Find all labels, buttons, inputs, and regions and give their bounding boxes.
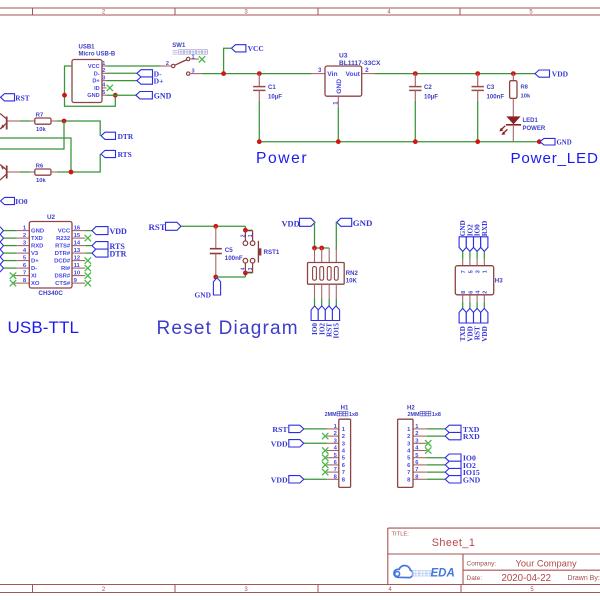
net flag IO15 below RN2	[332, 306, 340, 339]
wire USB VCC to SW1 pin2	[107, 65, 161, 67]
wire H2 pin1 to TXD	[427, 428, 445, 430]
wire R7 to DTR	[51, 120, 57, 122]
svg-text:GND: GND	[353, 218, 373, 228]
svg-text:10: 10	[74, 271, 81, 277]
wire R8 to LED1	[512, 98, 514, 116]
no-connect X U2 pin7	[10, 272, 16, 278]
svg-text:IO0: IO0	[15, 197, 28, 206]
net flag RXD at H2	[445, 432, 480, 441]
wire C3 to ground rail	[477, 101, 479, 142]
net flag TXD below H3	[459, 308, 467, 341]
svg-text:10µF: 10µF	[424, 94, 438, 101]
svg-text:VDD: VDD	[282, 220, 300, 229]
junction R6 node	[69, 170, 74, 175]
wire RST to H1 pin1	[304, 428, 327, 430]
wire SW1 pin3 to U3 Vin	[202, 73, 312, 75]
svg-text:7: 7	[334, 467, 337, 473]
junction ground rail at GND flag	[537, 139, 542, 144]
wire H2 pin2 to RXD	[427, 435, 445, 437]
wire RST to button	[181, 225, 245, 227]
no-connect X H2 pin3	[425, 440, 431, 446]
no-connect X U2 pin12	[85, 257, 91, 263]
power flag VDD right	[535, 70, 569, 79]
net flag GND at H2	[445, 475, 480, 484]
junction ground rail at C3	[475, 139, 480, 144]
svg-text:2: 2	[415, 431, 418, 437]
svg-text:1x8: 1x8	[432, 412, 441, 418]
svg-text:DTR: DTR	[118, 132, 134, 141]
net flag GND above H3	[459, 220, 467, 251]
svg-text:DTR: DTR	[110, 249, 127, 258]
no-connect X H1 pin4	[322, 447, 328, 453]
svg-text:Power_LED: Power_LED	[511, 150, 599, 167]
svg-text:1x8: 1x8	[349, 412, 358, 418]
svg-text:2020-04-22: 2020-04-22	[502, 573, 552, 584]
svg-text:13: 13	[74, 248, 81, 254]
push button RST1	[240, 231, 280, 273]
resistor R7	[35, 112, 51, 133]
power flag VDD at H1 pin8	[271, 475, 304, 484]
svg-text:LED1: LED1	[523, 118, 539, 124]
svg-text:RXD: RXD	[481, 221, 489, 237]
svg-text:7: 7	[342, 470, 345, 476]
transistor Q upper	[0, 114, 7, 130]
wire VCC flag to rail	[224, 48, 232, 73]
no-connect X H1 pin7	[322, 469, 328, 475]
no-connect X H2 pin4	[425, 447, 431, 453]
svg-text:VDD: VDD	[481, 326, 489, 342]
sheet border top	[0, 8, 600, 15]
ground flag GND reset	[195, 278, 221, 300]
wire GND to RN2 pin5	[335, 222, 337, 250]
wire U3 Vout to VDD	[375, 73, 535, 75]
voltage regulator U3	[312, 53, 381, 107]
header H2	[398, 405, 441, 487]
svg-text:8: 8	[461, 291, 467, 294]
net flag RXD above H3	[481, 221, 489, 252]
wire Q upper base to R7	[8, 120, 21, 122]
svg-text:10K: 10K	[346, 279, 358, 285]
svg-text:C1: C1	[268, 84, 276, 91]
resistor R6	[35, 163, 51, 184]
svg-text:11: 11	[74, 263, 81, 269]
wire USB GND to flag	[107, 94, 136, 96]
net flag D+	[137, 77, 164, 86]
svg-text:GND: GND	[195, 290, 211, 299]
border index numbers bottom	[102, 587, 535, 593]
wire U2 VCC to VDD flag	[85, 230, 92, 232]
junction button bottom	[243, 271, 248, 276]
net flag IO0 at H2	[445, 454, 476, 463]
wire U3 GND down	[337, 107, 339, 142]
svg-text:ID: ID	[94, 86, 100, 92]
svg-text:DSR#: DSR#	[54, 274, 70, 280]
resistor network RN2	[308, 248, 359, 299]
wire C1 to ground rail	[258, 101, 260, 142]
svg-text:1: 1	[102, 61, 105, 67]
no-connect X H1 pin5	[322, 455, 328, 461]
svg-text:3: 3	[248, 267, 254, 270]
capacitor C1	[253, 74, 282, 101]
svg-text:RTS: RTS	[118, 150, 132, 159]
no-connect X H1 pin2	[322, 433, 328, 439]
junction C2 top	[413, 71, 418, 76]
svg-text:USB-TTL: USB-TTL	[8, 318, 80, 337]
junction C1 top	[257, 71, 262, 76]
svg-text:2: 2	[483, 291, 489, 294]
power flag VDD at U2	[92, 227, 127, 236]
svg-text:7: 7	[415, 467, 418, 473]
wire R7 node down left	[0, 121, 64, 149]
svg-text:D+: D+	[92, 79, 100, 85]
resistor R8	[510, 74, 531, 100]
net flag IO0 above H3	[474, 224, 482, 251]
svg-text:RXD: RXD	[463, 432, 480, 441]
net flag IO2 above H3	[466, 224, 474, 251]
svg-text:VCC: VCC	[58, 229, 71, 235]
svg-text:VDD: VDD	[271, 439, 288, 448]
svg-text:XO: XO	[31, 281, 40, 287]
svg-text:GND: GND	[336, 79, 343, 94]
svg-text:Power: Power	[256, 150, 308, 167]
header H3	[455, 259, 503, 301]
wire U2 DTR# to flag	[85, 252, 92, 254]
net flag RST below RN2	[325, 306, 333, 337]
svg-text:USB1: USB1	[79, 44, 96, 50]
svg-text:1: 1	[483, 270, 489, 273]
svg-text:DTR#: DTR#	[55, 251, 71, 257]
svg-text:CH340C: CH340C	[38, 290, 63, 297]
capacitor C3	[472, 74, 505, 101]
svg-text:H2: H2	[407, 405, 415, 411]
svg-text:RN2: RN2	[346, 271, 359, 277]
net flag IO0 below RN2	[311, 306, 319, 335]
power flag VCC	[231, 44, 263, 53]
svg-text:14: 14	[74, 241, 81, 247]
svg-text:C3: C3	[487, 84, 495, 91]
svg-text:H3: H3	[495, 278, 503, 285]
svg-text:Drawn By:: Drawn By:	[568, 575, 600, 582]
svg-text:Sheet_1: Sheet_1	[432, 537, 476, 549]
svg-text:TXD: TXD	[31, 236, 43, 242]
net flag D-	[137, 69, 162, 78]
svg-text:16: 16	[74, 226, 81, 232]
wire Q lower base to R6	[8, 171, 21, 173]
wire USB D- to flag	[107, 72, 137, 74]
svg-text:RST: RST	[272, 425, 288, 434]
svg-text:7: 7	[461, 270, 467, 273]
svg-text:100nF: 100nF	[225, 255, 243, 262]
svg-text:100nF: 100nF	[487, 94, 505, 101]
junction ground rail at U3	[336, 139, 341, 144]
no-connect X U2 pin8	[10, 280, 16, 286]
junction VCC node	[221, 71, 226, 76]
junction C5 bottom	[213, 275, 218, 280]
svg-text:U3: U3	[339, 53, 348, 60]
capacitor C2	[409, 74, 438, 101]
junction button top	[243, 228, 248, 233]
svg-text:GND: GND	[557, 140, 572, 147]
svg-text:C2: C2	[424, 84, 432, 91]
svg-text:Date:: Date:	[467, 575, 483, 582]
wire H2 pin7 to IO15	[427, 471, 445, 473]
wire C2 to ground rail	[414, 101, 416, 142]
wire H2 pin5 to IO0	[427, 457, 445, 459]
svg-text:VCC: VCC	[248, 44, 264, 53]
svg-text:RXD: RXD	[31, 244, 43, 250]
svg-text:2: 2	[407, 434, 410, 440]
svg-text:12: 12	[74, 256, 81, 262]
EasyEDA logo	[394, 565, 455, 579]
svg-text:5: 5	[102, 90, 105, 96]
svg-text:10k: 10k	[521, 93, 531, 99]
svg-text:RST1: RST1	[264, 249, 280, 256]
svg-text:GND: GND	[87, 93, 99, 99]
svg-text:Your Company: Your Company	[516, 558, 578, 568]
svg-text:POWER: POWER	[523, 126, 546, 132]
junction C5 top	[213, 224, 218, 229]
svg-text:V3: V3	[31, 251, 39, 257]
svg-text:DCD#: DCD#	[54, 259, 71, 265]
junction R8 top	[511, 71, 516, 76]
svg-text:CTS#: CTS#	[55, 281, 71, 287]
svg-text:5: 5	[468, 270, 474, 273]
net flag DTR left	[101, 132, 134, 141]
svg-text:GND: GND	[154, 91, 172, 100]
svg-text:Vout: Vout	[346, 71, 361, 78]
svg-text:GND: GND	[463, 475, 481, 484]
svg-text:D+: D+	[154, 77, 164, 86]
no-connect X U2 pin11	[85, 265, 91, 271]
net flag IO2 at H2	[445, 461, 476, 470]
wire VDD to H1 pin3	[304, 442, 327, 444]
net flag VDD below H3	[466, 308, 474, 341]
wire H2 pin8 to GND	[427, 478, 445, 480]
net flag RST left	[1, 93, 30, 102]
net flag RST at H1	[272, 425, 303, 434]
USB connector USB1	[72, 44, 116, 102]
junction R7 node	[62, 119, 67, 124]
no-connect X U2 pin9	[85, 280, 91, 286]
svg-text:2: 2	[342, 434, 345, 440]
svg-text:Reset Diagram: Reset Diagram	[157, 318, 299, 339]
wire USB1 shield loop	[65, 66, 116, 106]
wire RN2 outputs	[314, 299, 316, 306]
junction C3 top	[475, 71, 480, 76]
ground rail wire	[259, 141, 540, 143]
svg-text:D-: D-	[94, 71, 100, 77]
svg-text:VCC: VCC	[88, 64, 100, 70]
svg-text:RTS#: RTS#	[55, 244, 71, 250]
svg-text:EDA: EDA	[431, 567, 455, 579]
junction RN2 pin8	[312, 246, 317, 251]
svg-text:VDD: VDD	[110, 227, 128, 236]
svg-text:2: 2	[102, 68, 105, 74]
header H1	[325, 405, 358, 487]
svg-text:SW1: SW1	[172, 43, 186, 49]
wire mid to R6 node	[0, 138, 71, 172]
svg-text:Vin: Vin	[327, 71, 337, 78]
svg-text:D+: D+	[31, 259, 39, 265]
no-connect X U2 pin15	[85, 235, 91, 241]
svg-text:H1: H1	[341, 405, 349, 411]
svg-text:TITLE:: TITLE:	[392, 532, 410, 538]
svg-text:Company:: Company:	[467, 560, 497, 567]
power flag VDD at H1 pin3	[271, 439, 304, 448]
svg-text:RST: RST	[15, 93, 29, 102]
wires H3 top pins	[463, 251, 485, 259]
ground flag GND at USB	[136, 91, 172, 100]
wire R6 to RTS	[51, 171, 57, 173]
svg-text:7: 7	[407, 470, 410, 476]
svg-text:6: 6	[468, 291, 474, 294]
net flag RST reset input	[149, 222, 182, 232]
wire U2 RTS# to flag	[85, 245, 92, 247]
net flag VDD below H3	[481, 308, 489, 341]
net flag IO2 below RN2	[318, 306, 326, 335]
svg-text:XI: XI	[31, 274, 37, 280]
wire H2 pin6 to IO2	[427, 464, 445, 466]
net flag RTS left	[101, 150, 132, 159]
svg-text:Micro USB-B: Micro USB-B	[79, 51, 116, 57]
junction USB GND	[113, 93, 118, 98]
net flag TXD at H2	[445, 425, 480, 434]
svg-text:R232: R232	[56, 236, 71, 242]
svg-text:4: 4	[240, 267, 246, 270]
border index numbers top	[102, 10, 534, 16]
svg-text:10k: 10k	[36, 178, 46, 184]
power flag VDD at RN2	[282, 218, 316, 228]
svg-text:VDD: VDD	[271, 475, 288, 484]
no-connect X H1 pin6	[322, 462, 328, 468]
title block	[388, 528, 600, 584]
svg-text:D-: D-	[31, 266, 37, 272]
net flag RTS at U2	[92, 242, 125, 251]
wire VDD to RN2	[314, 222, 317, 248]
svg-text:IO15: IO15	[333, 323, 341, 339]
IC U2 CH340C	[0, 214, 85, 297]
svg-text:2MM: 2MM	[408, 412, 420, 418]
svg-text:1: 1	[248, 234, 254, 237]
svg-text:15: 15	[74, 233, 81, 239]
no-connect X on USB1 ID pin	[107, 85, 113, 91]
svg-text:2: 2	[240, 234, 246, 237]
sheet border bottom	[0, 585, 600, 593]
junction USB loop left	[62, 93, 67, 98]
no-connect X U2 pin10	[85, 272, 91, 278]
svg-text:3: 3	[476, 270, 482, 273]
wire VDD to H1 pin8	[304, 478, 327, 480]
wire USB D+ to flag	[107, 80, 137, 82]
junction RN2 pin7	[319, 246, 324, 251]
svg-text:GND: GND	[31, 229, 44, 235]
svg-text:VDD: VDD	[552, 70, 569, 79]
wires H3 bottom pins	[463, 302, 485, 309]
ground flag GND right	[540, 138, 572, 146]
net flag IO0 left	[1, 197, 28, 206]
svg-text:RI#: RI#	[61, 266, 71, 272]
svg-text:RST: RST	[149, 222, 166, 232]
svg-text:R8: R8	[521, 84, 529, 90]
no-connect X on SW1 pin1	[199, 56, 205, 62]
svg-text:10µF: 10µF	[268, 94, 282, 101]
switch SW1	[161, 43, 208, 75]
net flag RST below H3	[474, 308, 482, 340]
junction ground rail at C1	[257, 139, 262, 144]
svg-text:3: 3	[102, 75, 105, 81]
svg-text:U2: U2	[47, 214, 56, 221]
transistor Q lower	[0, 165, 7, 181]
LED LED1	[499, 116, 546, 135]
net flag DTR at U2	[92, 249, 127, 258]
wire LED1 to ground rail	[512, 125, 514, 142]
svg-text:10k: 10k	[36, 127, 46, 133]
svg-text:2MM: 2MM	[325, 412, 337, 418]
capacitor C5	[210, 226, 243, 277]
wire button bottom to GND	[216, 276, 246, 278]
junction ground rail at C2	[413, 139, 418, 144]
svg-text:4: 4	[476, 291, 482, 294]
ground flag GND at RN2	[337, 218, 373, 228]
svg-text:2: 2	[334, 431, 337, 437]
net flag IO15 at H2	[445, 468, 480, 477]
svg-text:C5: C5	[225, 247, 233, 254]
